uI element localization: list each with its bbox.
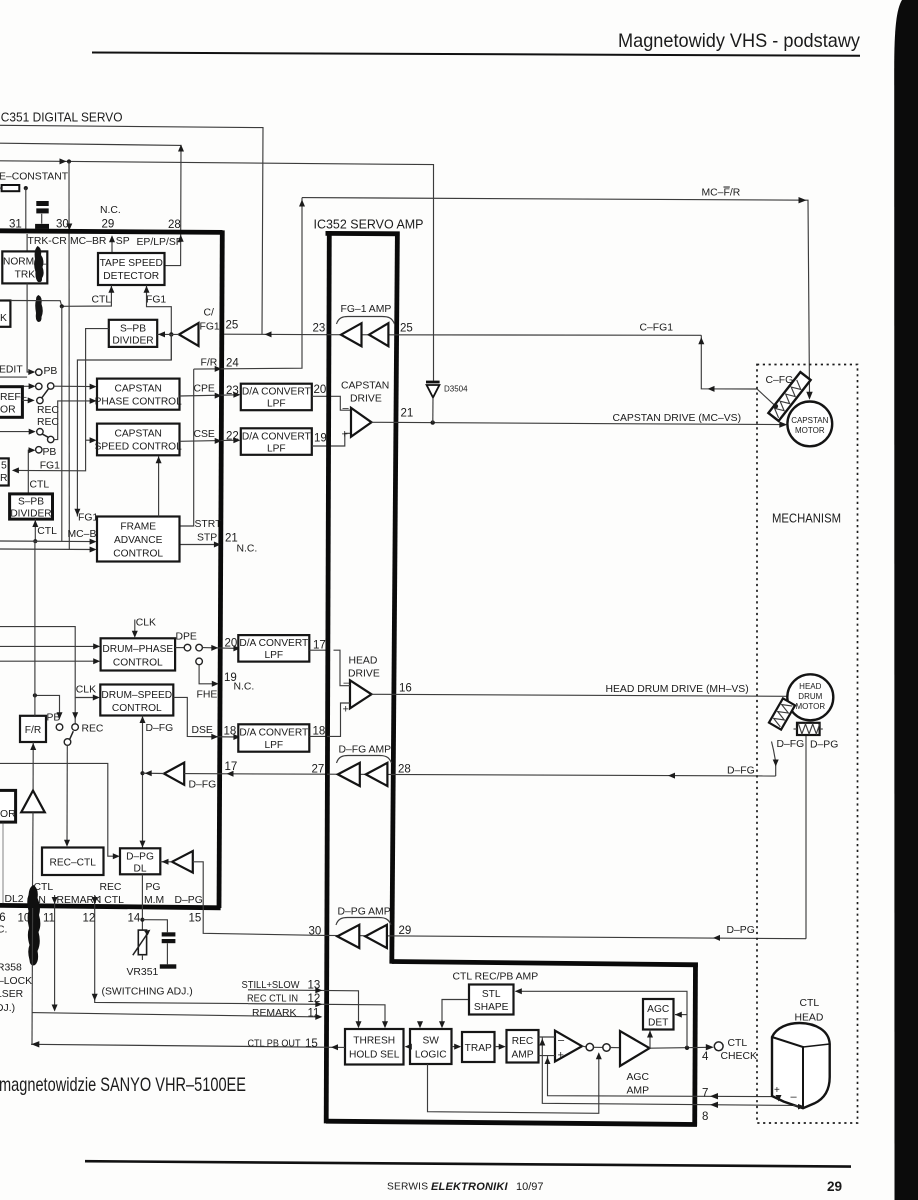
svg-text:HEAD: HEAD (799, 682, 821, 691)
motor HEAD DRUM MOTOR (787, 674, 833, 720)
svg-text:OR: OR (0, 405, 16, 416)
arrow up feedback 7 (545, 1057, 551, 1064)
switch contact REC (sw1 lower) (37, 397, 43, 403)
svg-text:+: + (558, 1050, 564, 1062)
bracket D-FG AMP (337, 756, 392, 764)
coil D-PG (794, 723, 823, 735)
IC352 wide box right (692, 963, 698, 1126)
arrow CPE at border (215, 393, 222, 399)
arrow up into capstan speed bottom (156, 456, 162, 463)
svg-text:LOGIC: LOGIC (415, 1050, 447, 1061)
svg-text:20: 20 (225, 638, 238, 650)
box FRAME ADVANCE CONTROL (97, 517, 180, 562)
svg-text:LPF: LPF (264, 650, 283, 661)
arrow down line12 into THRESH (382, 1021, 388, 1028)
arrow into frame advance input 1 (90, 539, 97, 545)
svg-text:D3504: D3504 (444, 385, 468, 394)
scanner black band right edge (894, 0, 918, 1200)
wire circle2 to AGC AMP (610, 1047, 620, 1049)
svg-text:23: 23 (313, 323, 326, 335)
node dot pin 14 (140, 918, 144, 922)
arrow STP into border (214, 542, 221, 548)
box CAPSTAN SPEED CONTROL (97, 424, 180, 456)
svg-text:K: K (0, 313, 7, 324)
wire PB branch (35, 695, 60, 717)
svg-text:AGC: AGC (647, 1004, 669, 1015)
ink blot pin 10 area (27, 885, 40, 965)
box cut-off 5 R at left edge (0, 458, 9, 485)
arrow right into switch 2 (29, 429, 36, 435)
svg-text:MECHANISM: MECHANISM (772, 511, 841, 526)
arrow down to PB contact (57, 712, 63, 719)
svg-text:AGC: AGC (627, 1072, 650, 1083)
box STL SHAPE (469, 985, 514, 1015)
svg-text:CAPSTAN: CAPSTAN (115, 384, 162, 395)
svg-text:D/A CONVERT: D/A CONVERT (242, 432, 311, 443)
svg-text:MC–BR: MC–BR (70, 236, 107, 247)
switch contact PB (lower) (36, 447, 42, 453)
wire branch into capstan speed (86, 439, 95, 441)
node dot D-FG line (140, 771, 144, 775)
box REC AMP (507, 1030, 539, 1063)
arrow CLK into drum speed (93, 695, 100, 701)
svg-text:D–PG: D–PG (810, 740, 838, 751)
svg-text:28: 28 (398, 764, 411, 776)
node dot AGC output (685, 1046, 689, 1050)
svg-text:CTL: CTL (92, 295, 112, 306)
svg-text:D/A CONVERT: D/A CONVERT (239, 728, 308, 739)
arrow right to PB lower contact (29, 447, 36, 453)
arrow right into capstan motor (779, 421, 787, 427)
box NORMAL TRK (2, 251, 47, 283)
arrow right on line C (60, 158, 67, 164)
switch blade sw1 (42, 389, 49, 398)
svg-text:PG: PG (146, 882, 161, 893)
node dot S-PB out (169, 332, 173, 336)
svg-text:IC352 SERVO AMP: IC352 SERVO AMP (314, 218, 424, 232)
capacitor (VR351 area) (162, 932, 176, 964)
svg-text:DRIVE: DRIVE (350, 394, 382, 405)
svg-text:HEAD: HEAD (795, 1013, 824, 1024)
wire drum phase input 1 (0, 645, 98, 647)
svg-text:FHE: FHE (197, 690, 218, 701)
wire pin 11 REMARK vertical (54, 895, 56, 1011)
wire REC AMP to minus input (539, 1036, 556, 1038)
amp D-PG triangle 2 (365, 925, 387, 948)
svg-text:DPE: DPE (176, 632, 197, 643)
switch common contact (64, 739, 71, 746)
coil C-FG (768, 372, 810, 421)
wire CTL long vertical (61, 306, 63, 541)
amp D-PG DL triangle (172, 851, 193, 873)
svg-text:MOTOR: MOTOR (795, 426, 825, 435)
arrow down to REC contact (72, 712, 78, 719)
wire CSE to D/A (180, 440, 239, 441)
arrow left into 5R box (12, 467, 19, 473)
arrow up into border pin 28 (178, 235, 184, 242)
arrow down pin 12 at line (92, 994, 98, 1001)
svg-text:N.C.: N.C. (234, 682, 255, 693)
svg-text:TRK: TRK (15, 270, 36, 281)
svg-text:EP/LP/SP: EP/LP/SP (137, 237, 183, 248)
box DRUM-PHASE CONTROL (101, 638, 176, 670)
arrow DSE into D/A convert (233, 734, 240, 740)
wire DPE from drum phase (175, 647, 184, 649)
svg-text:F/R: F/R (25, 725, 41, 736)
arrow left line 7 (710, 1093, 718, 1099)
wire DPE to pin 20 (202, 647, 238, 650)
box SW LOGIC (410, 1029, 452, 1064)
svg-text:20: 20 (314, 384, 327, 396)
svg-text:8: 8 (702, 1111, 708, 1123)
svg-text:DL2: DL2 (5, 894, 24, 905)
arrow up into switch node (596, 1052, 602, 1059)
amp C/FG1 triangle (179, 323, 199, 346)
wire feedback up to STL SHAPE and AGC DET (516, 991, 688, 1048)
svg-text:LSER: LSER (0, 989, 24, 1000)
arrow left line 8 (710, 1102, 718, 1108)
arrow right head terminal minus (798, 1104, 805, 1110)
svg-text:LPF: LPF (267, 399, 286, 410)
svg-text:D–FG: D–FG (777, 739, 805, 750)
svg-text:CTL: CTL (37, 526, 57, 537)
wire TRAP to REC AMP (495, 1046, 505, 1048)
wire pin 31 (25, 188, 27, 231)
svg-text:CTL: CTL (30, 480, 50, 491)
box THRESH HOLD SEL (345, 1029, 404, 1065)
wire head terminal 8 stub (793, 1105, 803, 1106)
svg-text:DRUM: DRUM (798, 692, 822, 701)
wire D-FG vertical to drum speed (142, 716, 144, 849)
amp CAPSTAN DRIVE opamp (351, 408, 372, 437)
arrow left into S-PB divider (158, 331, 165, 337)
arrow left into border pin 17 (227, 771, 234, 777)
wire DSE output (173, 697, 238, 737)
box D/A CONVERT LPF (capstan phase) (241, 384, 312, 411)
wire D-PG vertical to coil (805, 735, 807, 939)
svg-text:–: – (558, 1035, 565, 1047)
svg-text:I CTL: I CTL (99, 895, 125, 906)
wire pin19 D/A to amp plus (312, 433, 351, 446)
svg-text:N.C.: N.C. (237, 544, 258, 555)
arrow right into REC AMP (499, 1044, 506, 1050)
node dot on line C (67, 159, 71, 163)
svg-text:STL: STL (482, 989, 501, 1000)
wire AGC AMP output to CTL CHECK (650, 1046, 711, 1049)
svg-text:CSE: CSE (194, 429, 215, 440)
wire pin20 D/A to IC352 (312, 396, 351, 410)
wire pin 25 C-FG1 between ICs (224, 333, 327, 336)
arrow left into THRESH (405, 1044, 412, 1050)
svg-text:C/: C/ (204, 308, 215, 319)
box AGC DET (643, 999, 674, 1030)
dashed mechanism box (757, 365, 858, 1124)
svg-text:FRAME: FRAME (120, 522, 156, 533)
wire REF to REC contact (22, 399, 32, 401)
arrow FHE at border (212, 681, 219, 687)
switch contact left (sw1) (36, 383, 42, 389)
svg-text:S–PB: S–PB (18, 497, 44, 508)
ink blot over NORMAL TRK (34, 246, 44, 282)
node dot CTL jog (60, 304, 64, 308)
svg-text:AMP: AMP (511, 1050, 533, 1061)
box TAPE SPEED DETECTOR (98, 253, 165, 285)
svg-text:FG1: FG1 (78, 513, 98, 524)
svg-text:MC–F/R: MC–F/R (702, 188, 741, 199)
svg-text:ADVANCE: ADVANCE (114, 535, 163, 546)
svg-text:CONTROL: CONTROL (113, 658, 163, 669)
arrow up F/R to MC-F/R line (299, 200, 305, 207)
switch contact right (sw1) (48, 383, 54, 389)
box OR cut at left (0, 790, 16, 822)
svg-text:+: + (774, 1085, 780, 1096)
svg-text:23: 23 (226, 385, 239, 397)
svg-text:D–PG: D–PG (175, 895, 203, 906)
wire CTL from left to detector jog (10, 301, 61, 307)
arrow DSE at border (211, 734, 218, 740)
wire sw2 output up to capstan phase input 2 (54, 401, 95, 440)
svg-text:S–PB: S–PB (120, 324, 146, 335)
svg-text:REF–: REF– (0, 392, 27, 403)
arrow down into D-PG DL top (140, 841, 146, 848)
svg-text:CTL PB OUT: CTL PB OUT (248, 1038, 302, 1049)
svg-text:CLK: CLK (136, 618, 156, 629)
wire pin 17 D/A to IC352 (309, 649, 327, 651)
svg-text:19: 19 (314, 433, 327, 445)
switch contact right (sw2) (48, 436, 54, 442)
switch contact out 2 (603, 1044, 610, 1051)
switch contact REC (F/R) (72, 724, 79, 731)
arrow down into border pin 30 (66, 224, 72, 231)
svg-text:VR351: VR351 (127, 967, 159, 978)
wire into switch 2 (0, 431, 34, 433)
svg-text:–: – (343, 403, 350, 415)
wire capstan speed bottom input from frame advance top (158, 457, 160, 517)
box cut-off K at left edge (0, 301, 10, 327)
wire pin 12 REC I CTL vertical (95, 895, 248, 1004)
svg-text:STRT: STRT (195, 519, 223, 530)
svg-text:R: R (0, 473, 8, 484)
wire CTL PB OUT line 15 (31, 1044, 345, 1047)
svg-text:FG1: FG1 (146, 295, 166, 306)
amp D-FG (IC351 side) triangle (164, 763, 184, 785)
svg-text:30: 30 (56, 219, 69, 231)
arrow left on C-FG1 horizontal (708, 386, 715, 392)
svg-text:SHAPE: SHAPE (474, 1002, 509, 1013)
diode D3504 (426, 381, 440, 423)
switch contact DPE 2 (196, 644, 203, 651)
svg-text:HOLD SEL: HOLD SEL (349, 1050, 400, 1061)
svg-text:F/R: F/R (201, 358, 218, 369)
svg-text:R358: R358 (0, 963, 22, 974)
svg-text:CTL REC/PB AMP: CTL REC/PB AMP (453, 972, 539, 983)
wire F/R pin 24 (194, 198, 302, 370)
arrow up on C-FG1 drop (698, 337, 704, 344)
potentiometer VR351 (133, 930, 151, 960)
arrow right into TRAP (454, 1044, 461, 1050)
wire C-FG1 corner down to coil (701, 335, 776, 406)
arrow right to PB contact (28, 369, 35, 375)
wire CPE to D/A (180, 395, 239, 396)
svg-text:TAPE SPEED: TAPE SPEED (100, 258, 163, 269)
wire CLK into drum phase top (134, 620, 136, 637)
svg-text:17: 17 (225, 761, 238, 773)
bracket FG-1 AMP (337, 317, 395, 325)
svg-text:SPEED CONTROL: SPEED CONTROL (95, 442, 183, 453)
wire head plus input (327, 703, 350, 736)
svg-text:REC–CTL: REC–CTL (49, 858, 96, 869)
box CAPSTAN PHASE CONTROL (97, 379, 180, 410)
wire FG1 net vertical and runs (77, 334, 171, 516)
svg-text:7: 7 (702, 1088, 708, 1100)
svg-text:Magnetowidy VHS - podstawy: Magnetowidy VHS - podstawy (618, 30, 860, 52)
box REC-CTL (42, 848, 104, 876)
node dot diode junction (431, 420, 435, 424)
arrow into frame advance input 2 (90, 547, 97, 553)
IC352 border top (326, 231, 400, 236)
arrow down into REC-CTL top (64, 840, 70, 847)
arrow up on line B at corner (178, 145, 184, 152)
arrow right to REC contact (28, 397, 35, 403)
wire SW LOGIC bottom to switch node (428, 1054, 599, 1114)
svg-text:IC351 DIGITAL SERVO: IC351 DIGITAL SERVO (0, 111, 123, 125)
svg-text:22: 22 (226, 431, 239, 443)
arrow down line13 into THRESH (356, 1021, 362, 1028)
svg-text:CPE: CPE (194, 384, 215, 395)
wire D-FG through amp (327, 774, 776, 776)
wire FG1 feed line (14, 329, 109, 471)
arrow CPE into D/A convert (233, 392, 240, 398)
wire drum phase input 2 (0, 660, 98, 662)
wire MC-F/R line (302, 198, 810, 394)
arrow left into AGC DET (675, 1012, 682, 1018)
svg-text:M.M: M.M (144, 895, 164, 906)
coil D-FG (769, 698, 795, 729)
box D/A CONVERT LPF (drum phase) (238, 635, 309, 662)
arrow DPE at border (211, 645, 218, 651)
svg-text:D–FG AMP: D–FG AMP (339, 745, 392, 756)
switch contact PB (F/R) (56, 724, 63, 731)
svg-text:(SWITCHING ADJ.): (SWITCHING ADJ.) (102, 987, 193, 998)
arrow left line15 at border (331, 1044, 338, 1050)
svg-text:DJ.): DJ.) (0, 1003, 15, 1014)
wire line 13 STILL+SLOW (248, 990, 359, 1027)
comparator opamp (555, 1031, 582, 1062)
box D-PG DL (120, 848, 160, 874)
svg-text:C.: C. (0, 925, 7, 936)
arrow down head terminal plus (776, 1095, 782, 1102)
svg-text:CTL: CTL (800, 998, 820, 1009)
svg-text:REMARK: REMARK (252, 1008, 297, 1019)
svg-text:DET: DET (648, 1018, 668, 1029)
svg-text:HEAD DRUM DRIVE (MH–VS): HEAD DRUM DRIVE (MH–VS) (606, 684, 749, 695)
arrow left on D-PG line (713, 935, 720, 941)
arrow up FG1 into detector (144, 286, 150, 293)
box D/A CONVERT LPF (drum speed) (238, 724, 309, 751)
arrow left into D-PG DL right (162, 859, 169, 865)
svg-text:THRESH: THRESH (353, 1036, 395, 1047)
node dot C-FG coil terminal (774, 404, 779, 409)
svg-text:D–PG: D–PG (727, 925, 755, 936)
svg-text:REC: REC (37, 405, 59, 416)
svg-text:.6: .6 (0, 912, 6, 924)
svg-text:SW: SW (422, 1036, 439, 1047)
wire pin 14 vertical (141, 874, 143, 930)
IC351 border right (219, 230, 222, 908)
arrow down pin 11 above border (52, 897, 58, 904)
svg-text:D–FG: D–FG (146, 723, 174, 734)
head CTL HEAD (772, 1023, 830, 1108)
wire EDIT line (0, 376, 27, 378)
svg-text:DL: DL (133, 864, 146, 875)
arrow left into STL SHAPE (515, 988, 522, 994)
IC352 border right (column) (392, 232, 398, 964)
wire comparator out to circle 1 (582, 1045, 586, 1048)
wire FHE to pin 19 (199, 665, 217, 684)
arrow right to CTL CHECK terminal (706, 1044, 714, 1050)
svg-text:C–FG: C–FG (766, 375, 794, 386)
box S-PB DIVIDER upper (109, 320, 157, 347)
arrow left on pin25 wire (265, 331, 272, 337)
wire SW to TRAP (452, 1046, 461, 1048)
wire DL2 from OR box (2, 822, 4, 903)
svg-text:CAPSTAN: CAPSTAN (341, 381, 389, 392)
svg-text:CTL: CTL (728, 1038, 748, 1049)
svg-text:EDIT: EDIT (0, 365, 23, 376)
svg-text:CAPSTAN: CAPSTAN (115, 429, 162, 440)
svg-text:OR: OR (0, 809, 16, 820)
wire AGC DET to output line (649, 1030, 651, 1049)
svg-text:REC CTL IN: REC CTL IN (247, 994, 298, 1005)
arrow into drum phase input 2 (93, 658, 100, 664)
svg-text:MOTOR: MOTOR (795, 702, 825, 711)
svg-text:12: 12 (83, 913, 96, 925)
arrow CSE at border (215, 438, 222, 444)
svg-text:29: 29 (827, 1179, 843, 1194)
wire top line B to pin 28 (0, 143, 181, 265)
svg-text:LPF: LPF (264, 740, 283, 751)
arrow right into switch 1 (29, 383, 36, 389)
svg-text:27: 27 (312, 764, 325, 776)
wire SP from tape speed detector top (111, 237, 113, 254)
svg-text:E–CONSTANT: E–CONSTANT (0, 172, 69, 183)
arrow F/R at border (215, 366, 222, 372)
svg-text:SERWIS: SERWIS (387, 1182, 428, 1193)
arrow down pin 12 above border (92, 897, 98, 904)
svg-text:29: 29 (399, 925, 412, 937)
svg-text:DIVIDER: DIVIDER (112, 336, 153, 347)
arrow down CLK into drum phase (132, 631, 138, 638)
svg-text:REC: REC (100, 882, 122, 893)
svg-text:DSE: DSE (192, 725, 213, 736)
switch contact PB (edit) (36, 369, 42, 375)
svg-text:30: 30 (309, 926, 322, 938)
node dot CTL line (33, 539, 37, 543)
svg-text:DRUM–SPEED: DRUM–SPEED (101, 690, 172, 701)
arrow right on MC-F/R (799, 197, 807, 203)
wire F/R down to STRT (180, 369, 194, 526)
wire head drive output MH-VS (372, 694, 788, 696)
wire D-FG corner up to coil (772, 742, 776, 777)
svg-text:magnetowidzie SANYO VHR–5100EE: magnetowidzie SANYO VHR–5100EE (0, 1074, 246, 1096)
svg-text:14: 14 (128, 913, 141, 925)
arrow into capstan phase input 2 (90, 398, 97, 404)
footer rule (85, 1161, 851, 1166)
svg-text:CLK: CLK (76, 684, 96, 695)
amp HEAD DRIVE opamp (350, 680, 372, 708)
wire into F/R top (34, 541, 36, 716)
resistor E-CONSTANT (2, 185, 20, 191)
